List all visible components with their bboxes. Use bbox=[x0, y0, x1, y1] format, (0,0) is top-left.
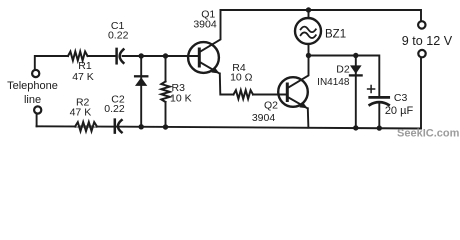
terminal top-left (telephone line tip) bbox=[32, 70, 39, 77]
transistor Q2 (2N3904 NPN) bbox=[278, 56, 308, 128]
wire: collector node to C3 branch bbox=[309, 56, 380, 97]
wire: R1 to C1 bbox=[88, 55, 116, 57]
node: D2 bottom junction bbox=[353, 125, 358, 130]
node: C3 bottom junction bbox=[377, 125, 382, 130]
resistor R3 bbox=[161, 56, 169, 127]
svg-text:line: line bbox=[24, 94, 41, 106]
svg-text:47 K: 47 K bbox=[70, 107, 92, 119]
node: D1 top junction bbox=[139, 53, 144, 58]
svg-text:D2: D2 bbox=[336, 63, 350, 75]
resistor R2 bbox=[75, 122, 97, 131]
V+ top rail bbox=[221, 10, 422, 21]
svg-text:BZ1: BZ1 bbox=[325, 28, 346, 40]
svg-text:SeekIC.com: SeekIC.com bbox=[397, 128, 460, 140]
svg-text:10 Ω: 10 Ω bbox=[230, 72, 253, 84]
node: D2 top junction bbox=[353, 53, 358, 58]
wire: lower supply terminal down to rail bbox=[420, 58, 422, 129]
svg-text:IN4148: IN4148 bbox=[317, 77, 350, 88]
capacitor C1 bbox=[117, 49, 124, 63]
wire: bottom terminal stub down to rail bbox=[36, 114, 38, 126]
svg-text:47 K: 47 K bbox=[72, 71, 94, 83]
svg-text:20 µF: 20 µF bbox=[385, 105, 414, 117]
transistor Q1 (2N3904 NPN) bbox=[188, 10, 233, 95]
svg-text:Telephone: Telephone bbox=[7, 80, 58, 92]
node: R3 top junction bbox=[163, 53, 168, 58]
svg-text:9 to 12 V: 9 to 12 V bbox=[402, 34, 453, 48]
svg-text:3904: 3904 bbox=[193, 18, 217, 30]
supply terminal upper (+) bbox=[418, 21, 425, 28]
node: BZ1 top junction bbox=[306, 7, 311, 12]
capacitor C2 bbox=[115, 120, 122, 133]
svg-text:3904: 3904 bbox=[252, 112, 276, 124]
wire: top terminal stub up to signal wire bbox=[35, 56, 68, 70]
diode D1 (to ground rail) bbox=[135, 56, 147, 127]
diode D2 IN4148 bbox=[350, 56, 362, 128]
terminal bottom-left (telephone line ring) bbox=[34, 106, 41, 113]
node: R3 bottom junction bbox=[163, 124, 168, 129]
resistor R4 bbox=[234, 90, 254, 99]
svg-text:C3: C3 bbox=[394, 92, 408, 104]
svg-text:10 K: 10 K bbox=[170, 92, 192, 104]
supply terminal lower (-) bbox=[418, 50, 425, 57]
svg-text:0.22: 0.22 bbox=[104, 103, 125, 115]
ground/return bottom rail bbox=[37, 126, 422, 128]
node: D1 bottom junction bbox=[139, 124, 144, 129]
buzzer BZ1 bbox=[295, 10, 321, 56]
node: Q2 collector / BZ1 junction bbox=[306, 53, 311, 58]
wire: C1 to Q1 base bbox=[123, 55, 199, 57]
svg-text:0.22: 0.22 bbox=[108, 30, 129, 42]
svg-text:Q2: Q2 bbox=[264, 100, 278, 112]
capacitor C3 electrolytic bbox=[368, 86, 389, 129]
resistor R1 bbox=[68, 52, 88, 61]
wire: R4 to Q2 base bbox=[253, 94, 286, 96]
